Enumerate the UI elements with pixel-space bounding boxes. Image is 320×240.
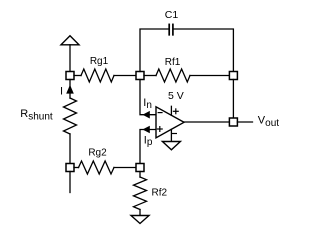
- wire: Rf2 to ground: [139, 210, 141, 216]
- resistor Rg1 (horizontal zigzag): [81, 69, 114, 82]
- svg-text:Rg1: Rg1: [90, 56, 109, 67]
- node S2 (junction of Rg1, C1, Rf1, In wire): [136, 72, 144, 80]
- wire: S2 down and right to op-amp inverting input: [140, 80, 156, 115]
- wire: C1 to right column, down to node S3: [174, 29, 234, 72]
- wire: Rg1 to node S2: [114, 75, 136, 77]
- supply arrow symbol (open up triangle, top-left): [61, 36, 79, 45]
- wire: op-amp output to node S6: [184, 121, 229, 123]
- wire: Rg2 to node S5: [114, 167, 136, 169]
- svg-text:I: I: [60, 86, 63, 98]
- svg-text:In: In: [143, 97, 152, 111]
- wire: S6 to Vout: [237, 121, 252, 123]
- svg-text:Rf2: Rf2: [152, 187, 168, 198]
- svg-text:Ip: Ip: [144, 135, 153, 149]
- op-amp U1 triangle: [156, 107, 184, 138]
- wire: op-amp noninverting input left and down to node S5: [140, 130, 156, 164]
- resistor Rg2 (horizontal zigzag): [79, 161, 115, 174]
- wire: S4 to Rg2: [74, 167, 79, 169]
- resistor Rf2 (vertical zigzag): [134, 177, 147, 210]
- capacitor C1: [169, 24, 173, 34]
- current arrow Ip (pointing left): [143, 126, 150, 134]
- wire: S2 to Rf1: [144, 75, 156, 77]
- wire: S3 down to node S6: [232, 80, 234, 119]
- ground symbol below Rf2: [131, 216, 149, 224]
- current arrow In (pointing left): [143, 111, 150, 119]
- wire: S5 down to Rf2: [139, 172, 141, 178]
- wire: stub below S4: [69, 172, 71, 193]
- op-amp U1 negative supply minus sign: [173, 133, 177, 135]
- op-amp U1 inverting input minus sign: [158, 112, 162, 114]
- op-amp U1 noninverting input plus sign: [157, 127, 162, 132]
- wire: S2 up to C1 row: [140, 29, 169, 72]
- svg-text:5 V: 5 V: [168, 90, 184, 102]
- op-amp U1 positive supply plus sign: [173, 109, 178, 114]
- wire: Rf1 to node S3: [190, 75, 229, 77]
- op-amp U1 positive supply pin: [170, 106, 172, 115]
- svg-text:C1: C1: [165, 9, 179, 21]
- wire: supply arrow to node S1: [69, 45, 71, 72]
- svg-text:Rg2: Rg2: [88, 147, 107, 158]
- current arrow I (pointing up): [66, 85, 74, 94]
- node S5 (junction of Rg2, Ip wire, Rf2): [136, 164, 144, 172]
- op-amp U1 negative supply pin: [170, 129, 172, 141]
- svg-text:Rf1: Rf1: [165, 57, 181, 68]
- wire: S1 to Rg1: [74, 75, 81, 77]
- node S3 (junction of C1, Rf1, feedback wire): [229, 72, 237, 80]
- node S6 (output node): [229, 118, 237, 126]
- resistor Rf1 (horizontal zigzag): [156, 69, 190, 82]
- wire: S1 down to Rshunt: [69, 80, 71, 99]
- ground symbol below op-amp: [162, 142, 180, 150]
- node S4 (junction of Rshunt, Rg2, stub): [66, 164, 74, 172]
- node S1 (junction of supply, Rg1, Rshunt): [66, 72, 74, 80]
- wire: Rshunt to node S4: [69, 134, 71, 164]
- resistor Rshunt (vertical zigzag): [64, 98, 77, 134]
